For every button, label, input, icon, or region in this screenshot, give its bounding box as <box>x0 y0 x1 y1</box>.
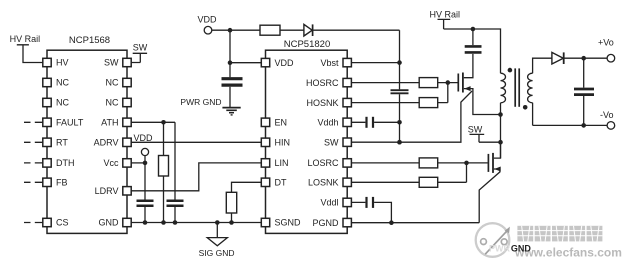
node SW (right) <box>468 125 503 145</box>
svg-text:SIG GND: SIG GND <box>199 248 235 258</box>
transformer T1 core <box>515 68 519 106</box>
wire LDRV to LIN <box>131 163 265 191</box>
svg-text:RT: RT <box>56 138 68 148</box>
IC U1 pin labels <box>56 58 119 228</box>
transformer T1 primary <box>501 73 506 158</box>
svg-text:NC: NC <box>56 78 69 88</box>
resistor R-HOSNK <box>347 83 448 108</box>
node VDD (mid) <box>134 133 154 165</box>
capacitor C-VDD <box>137 163 154 225</box>
svg-text:GND: GND <box>99 218 120 228</box>
node HV Rail (right) <box>430 9 501 73</box>
IC U1 pin squares left <box>43 58 51 226</box>
wire Vcc <box>131 162 145 164</box>
svg-text:GND: GND <box>511 244 532 254</box>
capacitor C-bst <box>391 63 409 145</box>
svg-text:SGND: SGND <box>275 218 302 228</box>
capacitor C-PWR <box>222 63 243 107</box>
IC U2 pin squares right <box>343 58 351 226</box>
wire Vbst <box>347 30 402 65</box>
svg-text:PWR: PWR <box>489 244 510 254</box>
wire GND to SGND rail <box>131 222 265 224</box>
svg-text:NC: NC <box>106 98 119 108</box>
svg-text:FAULT: FAULT <box>56 118 84 128</box>
capacitor C-out <box>574 58 594 128</box>
svg-text:LOSNK: LOSNK <box>308 178 339 188</box>
resistor R-LOSNK <box>347 163 466 187</box>
resistor R-VDD (top) <box>260 25 304 35</box>
svg-text:DT: DT <box>275 178 287 188</box>
resistor R-ATH <box>159 122 169 225</box>
IC U1 NCP1568 <box>47 35 127 234</box>
capacitor C-Vddl <box>347 197 391 223</box>
svg-text:PWR GND: PWR GND <box>180 97 221 107</box>
resistor R-HOSRC <box>347 78 457 88</box>
svg-text:CS: CS <box>56 218 69 228</box>
node SW (U1 top right) <box>131 42 148 62</box>
svg-text:PGND: PGND <box>312 218 339 228</box>
svg-text:+Vo: +Vo <box>598 37 614 47</box>
svg-text:Vddl: Vddl <box>320 198 338 208</box>
svg-text:EN: EN <box>275 118 288 128</box>
svg-text:HIN: HIN <box>275 138 291 148</box>
diode D-out <box>552 52 607 64</box>
svg-text:VDD: VDD <box>198 14 218 24</box>
svg-text:NC: NC <box>106 78 119 88</box>
capacitor C-Vddh <box>347 117 399 128</box>
svg-text:SW: SW <box>324 137 339 147</box>
IC U2 NCP51820 <box>266 39 348 233</box>
svg-text:HV Rail: HV Rail <box>430 9 461 19</box>
transformer T1 secondary <box>528 58 552 125</box>
svg-text:LIN: LIN <box>275 158 289 168</box>
svg-text:VDD: VDD <box>275 58 295 68</box>
wire ADRV to HIN <box>131 141 265 143</box>
wire SW pin to Q1 source <box>347 91 472 145</box>
IC U2 pin labels <box>275 58 340 228</box>
transistor Q1 (high side MOSFET) <box>458 54 503 117</box>
node VDD (top) <box>198 14 261 34</box>
watermark elecfans logo <box>476 223 510 257</box>
resistor R-LOSRC <box>347 158 487 168</box>
transformer T1 secondary polarity dot <box>523 105 528 110</box>
IC U1 pin squares right <box>123 58 131 226</box>
svg-text:NC: NC <box>56 98 69 108</box>
dashed stub RT <box>24 141 43 143</box>
svg-text:Vddh: Vddh <box>317 118 338 128</box>
node HV Rail (left) <box>10 34 43 62</box>
terminal -Vo <box>600 110 615 129</box>
wire VDD to U2 VDD pin <box>228 30 266 65</box>
svg-text:DTH: DTH <box>56 158 75 168</box>
transistor Q2 (low side MOSFET) <box>479 142 501 223</box>
svg-text:VDD: VDD <box>134 133 154 143</box>
ground SIG GND <box>199 220 235 258</box>
svg-text:SW: SW <box>104 58 119 68</box>
svg-text:HV: HV <box>56 58 69 68</box>
dashed stub FB <box>24 181 43 183</box>
svg-text:LOSRC: LOSRC <box>307 158 339 168</box>
svg-text:Vcc: Vcc <box>103 158 119 168</box>
dashed stub CS <box>24 222 43 224</box>
svg-text:SW: SW <box>133 42 148 52</box>
svg-text:HOSNK: HOSNK <box>306 98 338 108</box>
svg-text:FB: FB <box>56 178 68 188</box>
wire ATH <box>131 120 175 125</box>
svg-text:SW: SW <box>468 125 483 135</box>
transformer T1 primary polarity dot <box>508 68 513 73</box>
wire PGND <box>347 220 479 225</box>
diode D-bst <box>304 24 400 36</box>
svg-text:-Vo: -Vo <box>600 110 614 120</box>
wire -Vo rail <box>533 124 607 126</box>
svg-text:Vbst: Vbst <box>320 58 339 68</box>
svg-text:NCP51820: NCP51820 <box>284 39 330 50</box>
dashed stub DTH <box>24 162 43 164</box>
resistor R-DT <box>226 182 265 225</box>
svg-text:HOSRC: HOSRC <box>306 78 339 88</box>
svg-text:ADRV: ADRV <box>94 138 119 148</box>
svg-text:ATH: ATH <box>101 118 118 128</box>
capacitor C-HV <box>465 27 482 53</box>
ground PWR GND <box>180 97 240 115</box>
svg-text:LDRV: LDRV <box>95 186 119 196</box>
IC U2 pin squares left <box>261 58 269 226</box>
dashed stub FAULT <box>24 121 43 123</box>
terminal +Vo <box>598 37 615 62</box>
svg-text:HV Rail: HV Rail <box>10 34 41 44</box>
capacitor C-ATH <box>167 122 184 225</box>
watermark chinese text 电子发烧友 <box>517 226 602 242</box>
svg-text:NCP1568: NCP1568 <box>69 35 110 46</box>
